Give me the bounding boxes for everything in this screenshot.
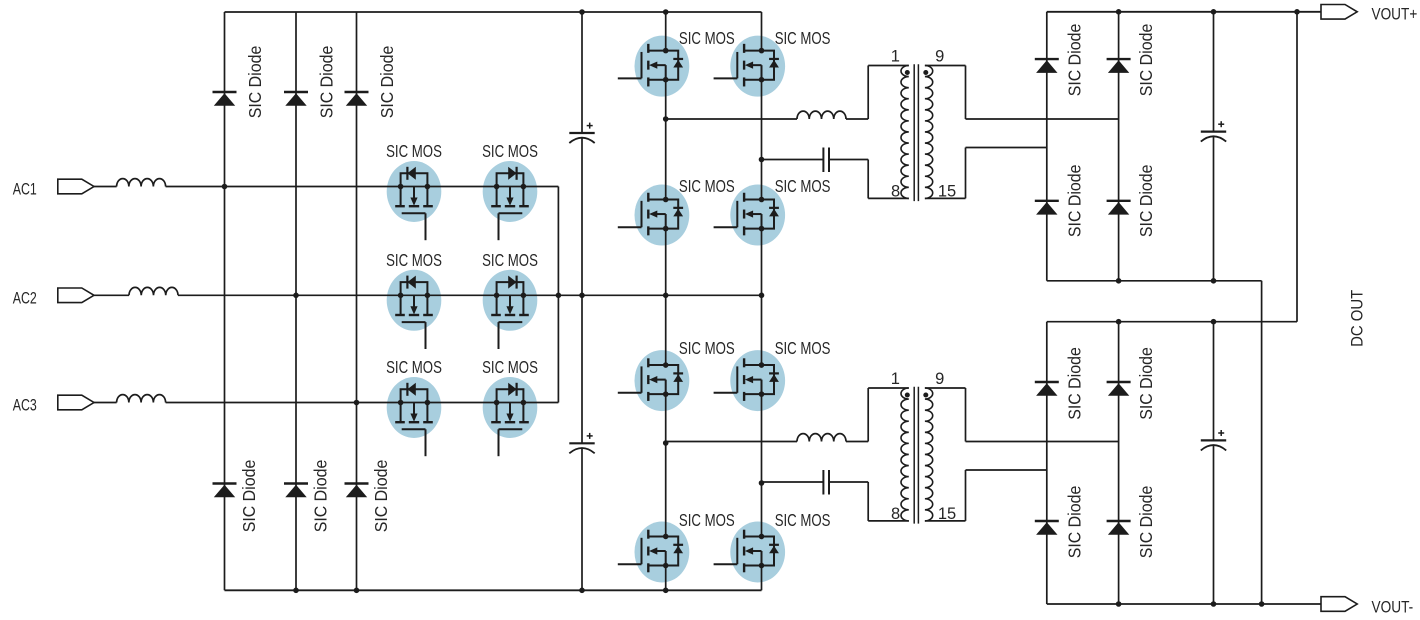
diode (SIC Diode, upper rect top row) <box>1107 59 1131 73</box>
svg-text:SIC MOS: SIC MOS <box>775 338 831 358</box>
highlight circle, Vienna SIC MOS row 2 col 2 <box>483 270 538 331</box>
wire: output cap rail lower segment (lower group) <box>1213 445 1215 604</box>
wire: right bridge leg segment <box>761 12 763 51</box>
diode (SIC Diode, upper rect bottom row) <box>1107 201 1131 215</box>
inductor Lr2 (resonant) <box>797 434 846 442</box>
junction left leg-resonant inductor (lower) <box>663 440 669 446</box>
wire: output cap rail lower segment <box>1213 136 1215 280</box>
wire: pin15 bottom wire <box>925 197 966 199</box>
highlight circle, Vienna SIC MOS row 1 col 1 <box>387 161 442 222</box>
transistor Q3 (SIC MOS, bidirectional pair row 2) <box>395 276 433 349</box>
svg-text:8: 8 <box>891 505 900 523</box>
svg-text:SIC MOS: SIC MOS <box>482 250 538 270</box>
svg-text:SIC MOS: SIC MOS <box>482 357 538 377</box>
wire: inductor line from left leg <box>666 118 797 120</box>
highlight circle, bridge SIC MOS row 3 right leg <box>730 350 785 411</box>
junction parallel link-top rail <box>1294 9 1300 15</box>
wire: pin15 lead vertical <box>965 148 967 199</box>
wire: diode leg 2 vertical <box>295 12 297 590</box>
svg-text:DC OUT: DC OUT <box>1348 290 1366 347</box>
wire: pin9 to rectifier right rail <box>966 441 1119 443</box>
svg-text:SIC Diode: SIC Diode <box>245 46 265 119</box>
phase dot T1 secondary <box>923 70 928 75</box>
wire: output top rail (VOUT+) <box>1047 11 1321 13</box>
junction right rail-top rail <box>1116 9 1122 15</box>
transistor Q10 (SIC MOS bridge) <box>714 193 779 236</box>
diode D3 (top, SIC Diode) <box>345 92 369 106</box>
transistor Q7 (SIC MOS bridge) <box>618 44 683 87</box>
wire: left bridge leg segment <box>665 566 667 590</box>
svg-text:SIC MOS: SIC MOS <box>775 510 831 530</box>
transistor Q8 (SIC MOS bridge) <box>714 44 779 87</box>
diode D2 (top, SIC Diode) <box>284 92 308 106</box>
junction right rail-bottom rail <box>1116 601 1122 607</box>
svg-text:SIC Diode: SIC Diode <box>1136 347 1156 420</box>
svg-text:SIC Diode: SIC Diode <box>317 46 337 119</box>
svg-text:1: 1 <box>891 370 900 388</box>
wire: right bridge leg segment <box>761 80 763 199</box>
svg-text:SIC Diode: SIC Diode <box>1064 486 1084 559</box>
transformer T1 primary winding <box>901 66 909 199</box>
svg-text:AC1: AC1 <box>13 181 37 199</box>
wire: pin9 top wire <box>925 387 966 389</box>
inductor L2 (AC2 boost inductor) <box>129 287 178 295</box>
svg-text:8: 8 <box>891 183 900 201</box>
wire: diode leg 3 vertical <box>356 12 358 590</box>
wire: right bridge leg segment <box>761 229 763 365</box>
highlight circle, bridge SIC MOS row 3 left leg <box>635 350 690 411</box>
diode (SIC Diode, lower rect bottom row) <box>1107 521 1131 535</box>
wire: positive link VOUT+ rail to lower group <box>1296 12 1298 322</box>
junction right rail-bottom rail upper group <box>1116 278 1122 284</box>
wire: inductor line from left leg <box>666 441 797 443</box>
svg-text:SIC Diode: SIC Diode <box>1064 165 1084 238</box>
wire: cap line from right leg <box>762 481 824 483</box>
svg-text:SIC Diode: SIC Diode <box>310 460 330 533</box>
transistor Q6 (SIC MOS, bidirectional pair row 3) <box>491 383 529 456</box>
wire: lower rect right rail <box>1118 322 1120 604</box>
wire: right bridge leg segment <box>761 566 763 590</box>
highlight circle, Vienna SIC MOS row 3 col 1 <box>387 377 442 438</box>
transistor Q11 (SIC MOS bridge) <box>618 358 683 401</box>
transformer T1 secondary winding <box>925 66 933 199</box>
junction cap-lower top rail <box>1211 319 1217 325</box>
svg-text:SIC MOS: SIC MOS <box>775 176 831 196</box>
svg-text:SIC Diode: SIC Diode <box>1136 486 1156 559</box>
wire: pin9 lead vertical <box>965 66 967 120</box>
wire: upper rect right rail <box>1118 12 1120 281</box>
transistor Q4 (SIC MOS, bidirectional pair row 2) <box>491 276 529 349</box>
transistor Q1 (SIC MOS, bidirectional pair row 1) <box>395 167 433 240</box>
diode D1 (top, SIC Diode) <box>213 92 237 106</box>
wire: diode leg 1 vertical <box>224 12 226 590</box>
wire: pin8 bottom wire <box>868 197 909 199</box>
diode (SIC Diode, upper rect top row) <box>1035 59 1059 73</box>
transistor Q12 (SIC MOS bridge) <box>714 358 779 401</box>
transformer T2 core <box>913 387 915 524</box>
svg-text:SIC Diode: SIC Diode <box>1136 165 1156 238</box>
wire: bus cap rail lower segment <box>581 448 583 590</box>
wire AC2 to inductor <box>94 294 129 296</box>
connector AC3 input terminal <box>58 395 94 410</box>
wire: upper rect left rail <box>1046 12 1048 281</box>
svg-text:SIC MOS: SIC MOS <box>679 28 735 48</box>
svg-text:SIC Diode: SIC Diode <box>1064 347 1084 420</box>
svg-text:1: 1 <box>891 47 900 65</box>
highlight circle, bridge SIC MOS row 4 left leg <box>635 522 690 583</box>
junction pair vertical-midpoint <box>556 293 562 299</box>
highlight circle, bridge SIC MOS row 4 right leg <box>730 522 785 583</box>
junction AC3-leg3 <box>354 400 360 406</box>
wire: pin9 top wire <box>925 65 966 67</box>
junction AC1-leg1 <box>222 184 228 190</box>
wire: pin8 lead vertical <box>867 482 869 521</box>
phase dot T2 secondary <box>923 393 928 398</box>
wire: cap to pin8 lead <box>829 159 868 161</box>
svg-text:9: 9 <box>935 47 944 65</box>
junction left leg-bottom rail <box>663 588 669 594</box>
svg-text:AC2: AC2 <box>13 290 37 308</box>
junction left leg-resonant inductor (upper) <box>663 116 669 122</box>
wire: lower rect left rail <box>1046 322 1048 604</box>
phase dot T1 primary <box>905 70 910 75</box>
wire: bus cap rail middle segment <box>581 138 583 444</box>
svg-text:SIC Diode: SIC Diode <box>239 460 259 533</box>
svg-text:VOUT+: VOUT+ <box>1372 6 1418 24</box>
wire: pin9 lead vertical <box>965 388 967 442</box>
capacitor Cr2 (resonant, series) <box>822 470 824 495</box>
wire AC1 to inductor <box>94 186 117 188</box>
junction right leg-resonant cap (lower) <box>759 480 765 486</box>
svg-text:SIC MOS: SIC MOS <box>775 28 831 48</box>
diode (SIC Diode, lower rect top row) <box>1107 382 1131 396</box>
svg-text:SIC MOS: SIC MOS <box>386 357 442 377</box>
transformer T2 primary winding <box>901 388 909 521</box>
junction left bridge leg-midpoint <box>663 293 669 299</box>
wire: pin15 to rectifier left rail <box>966 147 1047 149</box>
transistor Q14 (SIC MOS bridge) <box>714 530 779 573</box>
wire: left bridge leg segment <box>665 80 667 199</box>
inductor Lr1 (resonant) <box>797 111 846 119</box>
svg-text:AC3: AC3 <box>13 397 37 415</box>
junction cap rail-top rail <box>579 9 585 15</box>
svg-text:SIC MOS: SIC MOS <box>679 338 735 358</box>
wire: pin1 top wire <box>868 387 909 389</box>
wire: pin8 bottom wire <box>868 520 909 522</box>
connector AC2 input terminal <box>58 288 94 303</box>
svg-text:SIC Diode: SIC Diode <box>1064 24 1084 97</box>
wire: pin8 lead vertical <box>867 160 869 199</box>
svg-text:SIC MOS: SIC MOS <box>386 250 442 270</box>
highlight circle, Vienna SIC MOS row 1 col 2 <box>483 161 538 222</box>
junction leg3-bottom rail <box>354 588 360 594</box>
inductor L1 (AC1 boost inductor) <box>117 179 166 187</box>
highlight circle, bridge SIC MOS row 1 right leg <box>730 36 785 97</box>
diode D5 (bottom, SIC Diode) <box>284 484 308 498</box>
svg-text:SIC MOS: SIC MOS <box>679 510 735 530</box>
junction leg2-bottom rail <box>293 588 299 594</box>
wire: left bridge leg segment <box>665 12 667 51</box>
wire: pin9 to rectifier right rail <box>966 118 1119 120</box>
transistor Q13 (SIC MOS bridge) <box>618 530 683 573</box>
wire: upper group bottom rail <box>1047 280 1262 282</box>
capacitor C2 (+ DC bus lower) <box>569 433 594 453</box>
capacitor C1 (+ DC bus upper) <box>569 123 594 143</box>
highlight circle, bridge SIC MOS row 2 right leg <box>730 185 785 246</box>
diode (SIC Diode, lower rect top row) <box>1035 382 1059 396</box>
junction cap rail-midpoint <box>579 293 585 299</box>
wire: lower group top rail <box>1047 321 1297 323</box>
wire AC3 to inductor <box>94 402 117 404</box>
highlight circle, Vienna SIC MOS row 3 col 2 <box>483 377 538 438</box>
svg-text:SIC MOS: SIC MOS <box>386 141 442 161</box>
inductor L3 (AC3 boost inductor) <box>117 395 166 403</box>
wire: output bottom rail (VOUT-) <box>1047 603 1321 605</box>
wire: left bridge leg segment <box>665 394 667 536</box>
wire: pin1 top wire <box>868 65 909 67</box>
capacitor C4 (+ output, lower) <box>1201 430 1226 450</box>
wire: negative link upper group to VOUT- rail <box>1261 281 1263 604</box>
phase dot T2 primary <box>905 393 910 398</box>
wire: pin1 lead vertical <box>867 388 869 442</box>
junction right bridge leg-midpoint <box>759 293 765 299</box>
transformer T2 secondary winding <box>925 388 933 521</box>
wire: inductor to pin1 lead <box>846 441 868 443</box>
wire AC3 phase line to switch pair <box>166 402 559 404</box>
junction cap-bottom rail <box>1211 601 1217 607</box>
wire: pin15 lead vertical <box>965 470 967 521</box>
svg-text:SIC Diode: SIC Diode <box>1136 24 1156 97</box>
wire: pin15 bottom wire <box>925 520 966 522</box>
svg-text:SIC MOS: SIC MOS <box>482 141 538 161</box>
junction cap-bottom rail upper group <box>1211 278 1217 284</box>
diode (SIC Diode, lower rect bottom row) <box>1035 521 1059 535</box>
wire: output cap rail upper segment <box>1213 12 1215 132</box>
diode D6 (bottom, SIC Diode) <box>345 484 369 498</box>
junction parallel link-bottom rail <box>1259 601 1265 607</box>
svg-text:SIC Diode: SIC Diode <box>377 46 397 119</box>
connector VOUT- output terminal <box>1321 597 1357 612</box>
diode (SIC Diode, upper rect bottom row) <box>1035 201 1059 215</box>
connector VOUT+ output terminal <box>1321 5 1357 20</box>
svg-text:SIC Diode: SIC Diode <box>371 460 391 533</box>
highlight circle, bridge SIC MOS row 2 left leg <box>635 185 690 246</box>
svg-text:SIC MOS: SIC MOS <box>679 176 735 196</box>
highlight circle, Vienna SIC MOS row 2 col 1 <box>387 270 442 331</box>
junction cap rail-bottom rail <box>579 588 585 594</box>
svg-text:VOUT-: VOUT- <box>1372 599 1414 617</box>
transistor Q9 (SIC MOS bridge) <box>618 193 683 236</box>
junction AC2-leg2 <box>293 293 299 299</box>
transformer T1 core <box>913 64 915 201</box>
wire: cap to pin8 lead <box>829 481 868 483</box>
junction right leg-resonant cap (upper) <box>759 157 765 163</box>
junction right rail-lower top rail <box>1116 319 1122 325</box>
capacitor C3 (+ output, upper) <box>1201 121 1226 141</box>
wire: output cap rail upper segment (lower group) <box>1213 322 1215 441</box>
wire: switch-pair common vertical to midpoint <box>557 187 559 403</box>
svg-text:9: 9 <box>935 370 944 388</box>
transistor Q5 (SIC MOS, bidirectional pair row 3) <box>395 383 433 456</box>
wire: pin1 lead vertical <box>867 66 869 120</box>
wire: right bridge leg segment <box>761 394 763 536</box>
wire: cap line from right leg <box>762 159 824 161</box>
wire AC1 phase line to switch pair <box>166 186 559 188</box>
capacitor Cr1 (resonant, series) <box>822 148 824 173</box>
wire: DC top rail <box>225 11 762 13</box>
transistor Q2 (SIC MOS, bidirectional pair row 1) <box>491 167 529 240</box>
diode D4 (bottom, SIC Diode) <box>213 484 237 498</box>
wire: inductor to pin1 lead <box>846 118 868 120</box>
junction cap-top rail <box>1211 9 1217 15</box>
wire: left bridge leg segment <box>665 229 667 365</box>
highlight circle, bridge SIC MOS row 1 left leg <box>635 36 690 97</box>
junction left leg-top rail <box>663 9 669 15</box>
wire AC2 phase line / DC midpoint line <box>178 294 762 296</box>
wire: pin15 to rectifier left rail <box>966 469 1047 471</box>
connector AC1 input terminal <box>58 179 94 194</box>
wire: DC bottom rail <box>225 589 762 591</box>
wire: bus cap rail upper segment <box>581 12 583 133</box>
